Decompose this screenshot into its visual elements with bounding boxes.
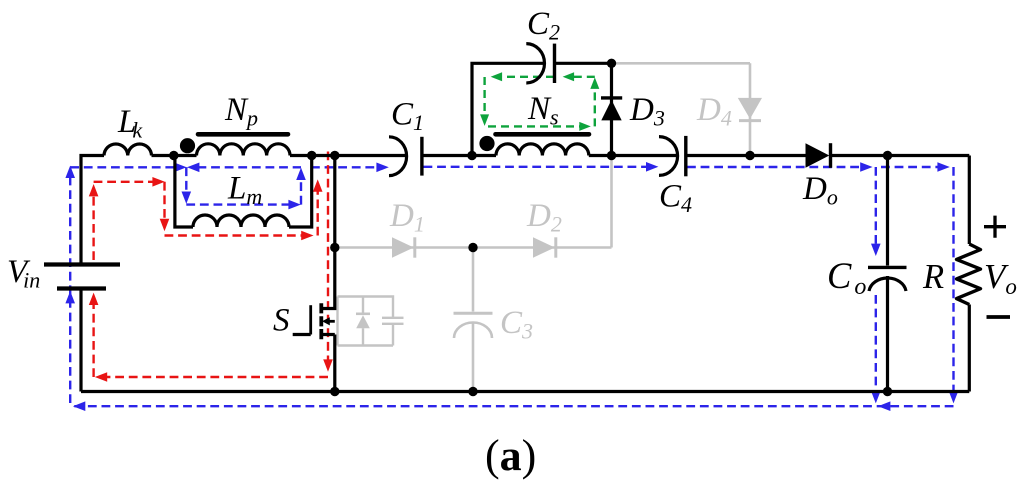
svg-text:D3: D3 <box>629 92 665 131</box>
arrow green left end of top <box>491 72 503 81</box>
svg-text:Ns: Ns <box>527 91 559 130</box>
mosfet S body arrow line <box>327 320 335 323</box>
battery Vin bottom plate <box>57 286 106 290</box>
diode D3 triangle <box>601 100 621 121</box>
arrow red up below battery <box>89 293 99 305</box>
wire C2 branch left vertical and top <box>472 63 544 155</box>
battery Vin top plate <box>44 262 120 266</box>
wire Do to output corner <box>831 154 970 157</box>
inductor Ns winding <box>496 144 589 156</box>
svg-text:C4: C4 <box>659 179 692 218</box>
transformer phase dot Ns <box>479 136 494 151</box>
diode Do triangle <box>806 143 830 168</box>
resistor R zigzag <box>957 244 981 305</box>
wire blue top horizontal segment B <box>311 166 382 168</box>
wire green right vertical <box>594 84 596 126</box>
arrow blue right on inner loop bottom <box>288 200 300 210</box>
node dot D4 bottom junction <box>745 151 754 160</box>
inductor Lm winding <box>193 215 289 227</box>
wire bottom rail <box>81 390 969 393</box>
wire C2 to D3 top node <box>555 62 612 65</box>
capacitor C3 branch top lead <box>472 248 475 312</box>
wire red vertical above battery <box>92 189 94 260</box>
arrow red up above battery <box>89 184 99 196</box>
svg-text:C3: C3 <box>500 305 533 344</box>
wire green bottom horizontal <box>488 125 584 127</box>
capacitor C4 flat plate <box>684 136 687 176</box>
svg-text:Lm: Lm <box>227 171 262 210</box>
capacitor C2 flat plate <box>553 44 556 83</box>
wire Lk to Np node <box>152 154 197 157</box>
wire blue bottom return line <box>70 405 953 407</box>
node dot Do-Co junction <box>883 151 892 160</box>
arrow green right on bottom <box>579 122 591 131</box>
svg-text:Vo: Vo <box>984 257 1017 299</box>
arrow blue right before R branch corner <box>937 162 949 172</box>
wire gray D1-D2 rail <box>335 246 612 249</box>
mosfet S body arrow head <box>322 317 330 325</box>
mosfet parasitic capacitor plates <box>382 318 404 324</box>
arrow red down along switch <box>323 359 333 371</box>
svg-text:Vin: Vin <box>7 254 40 293</box>
wire C4 to Do <box>686 154 806 157</box>
node dot Ns-D3 junction <box>607 151 616 160</box>
label plus sign of Vo <box>984 216 1006 238</box>
diode D3 branch vertical <box>610 63 613 155</box>
arrow blue down at bottom of Co branch <box>871 391 881 403</box>
wire blue inner Lm loop right vertical <box>300 172 302 205</box>
mosfet body-diode bar <box>356 312 370 315</box>
arrow green left mid of top <box>563 72 575 81</box>
mosfet body box outline <box>338 297 394 346</box>
wire blue Co branch vertical lower <box>875 295 877 397</box>
mosfet S channel bar segments <box>319 303 323 339</box>
wire gray top rail from D3 node to D4 branch <box>612 62 751 65</box>
wire red horizontal under Lm <box>165 234 308 236</box>
green loop: C2-Ns resonant path <box>485 77 595 127</box>
transformer phase dot Np <box>180 138 195 153</box>
arrow blue up at top-left corner <box>65 166 75 178</box>
wire red vertical along switch drain <box>327 152 329 366</box>
mosfet body-diode triangle <box>356 315 370 328</box>
wire blue inner Lm loop top segment <box>198 166 302 168</box>
diode Do cathode bar <box>829 143 832 168</box>
wire red vertical up right of Lm <box>317 185 319 236</box>
arrow blue left head of inner loop top <box>187 163 199 173</box>
node dot D1-D2-C3 junction <box>468 243 477 252</box>
capacitor C2 curved plate <box>526 44 544 83</box>
diode D1 cathode bar <box>413 237 416 257</box>
node dot C3 bottom junction <box>468 387 477 396</box>
inductor Np winding <box>197 144 291 156</box>
node dot C1-Ns-C2 junction <box>467 151 476 160</box>
inductor Lm branch right vertical <box>289 156 312 228</box>
wire red bottom horizontal <box>100 376 328 378</box>
wire blue R branch vertical <box>952 167 954 397</box>
arrow blue right before Co node <box>860 162 872 172</box>
capacitor C1 curved plate <box>389 137 407 176</box>
transformer core bar over Ns <box>496 132 590 137</box>
node dot drain-D1 junction <box>330 243 339 252</box>
wire R bottom lead <box>968 305 971 392</box>
wire blue horizontal to R branch <box>881 166 943 168</box>
arrow blue up on inner loop right <box>296 168 306 180</box>
capacitor Co bottom lead <box>886 276 889 392</box>
capacitor Co curved plate <box>869 278 906 291</box>
diode D3 cathode bar <box>601 96 622 99</box>
wire Np to C1 <box>290 154 406 157</box>
diode D4 triangle <box>738 98 762 119</box>
wire right rail down to R <box>968 156 971 245</box>
svg-text:Do: Do <box>802 171 838 210</box>
wire blue inner Lm loop left vertical <box>185 167 187 196</box>
arrow green down on left vertical <box>480 114 489 126</box>
arrow blue up below battery <box>65 291 75 303</box>
svg-text:C1: C1 <box>391 97 424 136</box>
wire blue inner Lm loop bottom <box>186 203 294 205</box>
arrow red up right of Lm <box>313 179 323 191</box>
svg-text:S: S <box>273 303 290 339</box>
arrow green up on right vertical <box>590 77 599 89</box>
node dot switch drain top <box>330 151 339 160</box>
inductor Lk winding <box>104 144 152 156</box>
wire blue left vertical <box>69 169 71 403</box>
mosfet S source lead <box>322 335 335 392</box>
mosfet body-diode lead <box>362 297 364 346</box>
inductor Lm branch left vertical <box>175 156 193 228</box>
capacitor C3 flat plate <box>454 312 493 315</box>
wire red vertical below battery <box>92 299 94 378</box>
wire red top horizontal <box>94 181 158 183</box>
arrow blue down on Co branch <box>871 244 881 256</box>
wire Ns to D3 node <box>589 154 612 157</box>
diode D2 triangle <box>533 237 555 257</box>
svg-text:(a): (a) <box>485 431 536 480</box>
node dot Lk-Np junction <box>169 151 178 160</box>
svg-text:C2: C2 <box>527 6 560 45</box>
arrow blue left on bottom return near Co <box>878 401 890 411</box>
svg-text:Np: Np <box>224 92 258 131</box>
capacitor C1 flat plate <box>420 137 423 176</box>
wire green top horizontal left part <box>497 76 554 78</box>
capacitor Co flat plate <box>868 266 907 269</box>
capacitor Co branch top lead <box>886 156 889 266</box>
wire blue top horizontal segment D (after C4) <box>687 166 864 168</box>
arrow blue right before C1 <box>376 163 388 173</box>
red loop: primary-side current path <box>94 152 328 378</box>
node dot source bottom junction <box>330 387 339 396</box>
svg-text:Lk: Lk <box>117 104 143 143</box>
arrow red down left of Lm <box>160 219 170 231</box>
label minus sign of Vo <box>987 315 1011 319</box>
arrow red left on bottom horizontal <box>95 372 107 382</box>
wire blue Co branch vertical upper <box>875 167 877 249</box>
arrow blue right before C4 <box>646 162 658 172</box>
diode D2 cathode bar <box>554 237 557 257</box>
wire D3 node to C4 <box>612 154 678 157</box>
svg-text:R: R <box>922 258 944 296</box>
svg-text:D4: D4 <box>696 92 732 131</box>
node dot Np right / Lm junction <box>307 151 316 160</box>
wire red vertical down left of Lm <box>163 182 165 225</box>
arrow blue left at bottom-left corner <box>73 401 85 411</box>
mosfet S gate lead <box>293 333 311 336</box>
transformer core bar over Np <box>198 132 288 137</box>
capacitor C3 curved plate <box>454 323 492 339</box>
svg-text:D2: D2 <box>526 198 562 237</box>
wire C1 to Ns node <box>422 154 496 157</box>
capacitor C3 bottom lead <box>472 323 475 392</box>
arrow red right under Lm <box>301 231 313 241</box>
wire green top horizontal right part <box>569 76 595 78</box>
wire gray vertical from D3 node down to D2 rail <box>610 156 613 248</box>
node dot Co bottom junction <box>883 387 892 396</box>
arrow blue down at bottom of R branch <box>949 391 959 403</box>
arrow red right on top horizontal <box>152 177 164 187</box>
mosfet S gate bar <box>309 305 312 334</box>
diode D1 triangle <box>392 237 414 257</box>
wire left rail bottom <box>79 288 82 392</box>
svg-text:D1: D1 <box>389 198 425 237</box>
blue loop: input/output current path <box>70 167 953 406</box>
wire left rail top (Vin+ to top wire) <box>81 156 104 265</box>
wire green left vertical <box>483 77 485 120</box>
capacitor C4 curved plate <box>659 137 678 176</box>
svg-text:Co: Co <box>827 255 866 300</box>
wire blue top horizontal segment C (after C1) <box>424 166 652 168</box>
arrow blue right on segment A <box>174 163 186 173</box>
wire gray D4 branch vertical <box>749 63 752 155</box>
wire blue top horizontal segment A <box>70 166 181 168</box>
mosfet S drain lead <box>322 156 335 309</box>
diode D4 cathode bar <box>739 119 761 122</box>
node dot C2-D3 top junction <box>607 59 616 68</box>
arrow blue down on inner loop left <box>182 192 192 204</box>
